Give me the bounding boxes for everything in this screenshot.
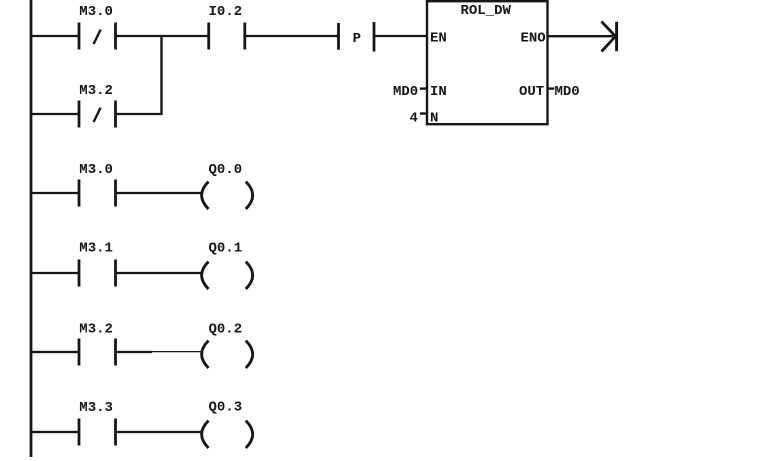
svg-text:OUT: OUT bbox=[519, 84, 544, 100]
svg-text:ENO: ENO bbox=[521, 31, 546, 47]
svg-text:M3.0: M3.0 bbox=[79, 4, 113, 20]
svg-text:P: P bbox=[353, 31, 361, 47]
left power rail bbox=[30, 0, 33, 457]
svg-text:IN: IN bbox=[430, 84, 447, 100]
wire P contact to ROL_DW EN input bbox=[374, 35, 427, 37]
wire rung3: rail to contact M3.0 bbox=[31, 192, 79, 194]
contact M3.2 normally-closed bbox=[79, 101, 116, 128]
wire contact M3.2 to branch junction bbox=[116, 113, 163, 115]
svg-text:4: 4 bbox=[410, 110, 418, 126]
svg-text:M3.1: M3.1 bbox=[79, 240, 113, 256]
wire rung4: rail to contact M3.1 bbox=[31, 272, 79, 274]
svg-text:Q0.1: Q0.1 bbox=[209, 240, 243, 256]
svg-text:M3.2: M3.2 bbox=[79, 321, 113, 337]
svg-text:ROL_DW: ROL_DW bbox=[461, 3, 512, 19]
coil Q0.2 bbox=[202, 341, 253, 368]
svg-text:M3.2: M3.2 bbox=[79, 83, 113, 99]
wire rung2: rail to contact M3.2 bbox=[31, 113, 79, 115]
wire ENO output to open-branch arrow bbox=[548, 35, 613, 37]
contact P positive edge bbox=[339, 22, 375, 52]
svg-text:MD0: MD0 bbox=[393, 84, 418, 100]
contact M3.3 normally-open bbox=[79, 419, 116, 446]
branch vertical wire (junction to rung 2) bbox=[160, 35, 162, 115]
open branch arrow bbox=[602, 22, 617, 52]
svg-text:MD0: MD0 bbox=[555, 84, 580, 100]
contact M3.1 normally-open bbox=[79, 260, 116, 287]
function block U1 ROL_DW bbox=[427, 1, 548, 126]
svg-text:Q0.0: Q0.0 bbox=[209, 162, 243, 178]
wire branch junction to contact I0.2 bbox=[162, 35, 209, 37]
contact I0.2 normally-open bbox=[209, 23, 245, 50]
wire contact M3.0 to branch junction bbox=[116, 35, 163, 37]
pin operand MD0 at OUT output bbox=[548, 84, 580, 100]
contact M3.2 normally-open (rung 5) bbox=[79, 339, 116, 366]
wire rung6: rail to contact M3.3 bbox=[31, 431, 79, 433]
svg-text:N: N bbox=[430, 110, 438, 126]
coil Q0.0 bbox=[202, 182, 253, 209]
wire rung5: rail to contact M3.2 bbox=[31, 351, 79, 353]
wire contact M3.3 to coil Q0.3 bbox=[116, 431, 202, 433]
wire contact M3.2 to coil Q0.2 (thin scanned segment) bbox=[116, 350, 202, 353]
contact M3.0 normally-open (rung 3) bbox=[79, 180, 116, 207]
wire contact M3.1 to coil Q0.1 bbox=[116, 272, 202, 274]
svg-text:Q0.3: Q0.3 bbox=[209, 400, 243, 416]
coil Q0.1 bbox=[202, 262, 253, 289]
wire contact M3.0 to coil Q0.0 bbox=[116, 192, 202, 194]
svg-text:M3.0: M3.0 bbox=[79, 162, 113, 178]
pin operand MD0 at IN input bbox=[393, 84, 427, 100]
svg-text:EN: EN bbox=[430, 31, 447, 47]
pin operand 4 at N input bbox=[410, 110, 426, 126]
coil Q0.3 bbox=[202, 421, 253, 448]
contact M3.0 normally-closed bbox=[79, 23, 116, 50]
svg-text:M3.3: M3.3 bbox=[79, 400, 113, 416]
svg-text:I0.2: I0.2 bbox=[209, 4, 243, 20]
wire rung1: rail to contact M3.0 bbox=[31, 35, 79, 37]
wire contact I0.2 to P contact bbox=[245, 35, 339, 37]
svg-text:Q0.2: Q0.2 bbox=[209, 321, 243, 337]
